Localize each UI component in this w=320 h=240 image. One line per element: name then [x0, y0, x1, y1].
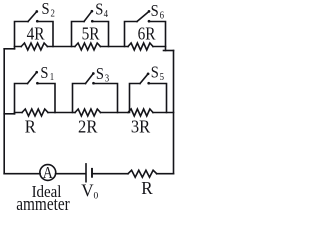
svg-text:4: 4: [104, 8, 108, 20]
svg-text:S: S: [95, 1, 103, 19]
svg-text:S: S: [151, 2, 159, 20]
wire middle-left connector: [4, 113, 14, 115]
svg-text:3R: 3R: [131, 117, 151, 137]
svg-text:4R: 4R: [27, 23, 46, 43]
resistor R (bottom branch): [128, 170, 157, 177]
svg-text:5R: 5R: [82, 23, 101, 43]
switch S6 parallel branch box: [125, 22, 138, 47]
resistor 4R: [21, 43, 47, 50]
svg-text:V: V: [81, 180, 94, 201]
switch S4 lever and contact dots: [84, 11, 92, 21]
switch S2 lever and contact dots: [28, 12, 37, 22]
resistor 3R: [128, 109, 153, 116]
resistor R (middle branch): [22, 109, 48, 116]
svg-text:3: 3: [105, 73, 109, 85]
switch S1 parallel branch box: [15, 84, 28, 114]
wire middle branch: [15, 112, 174, 114]
switch S5 lever and contact dots: [140, 74, 148, 84]
resistor 6R: [128, 43, 153, 50]
switch S2 parallel branch box: [15, 22, 29, 49]
svg-text:2: 2: [51, 8, 55, 20]
svg-text:R: R: [141, 178, 153, 199]
wire top-right corner connector: [164, 50, 174, 52]
switch S1 lever and contact dots: [28, 72, 37, 83]
svg-text:6R: 6R: [138, 23, 157, 43]
svg-text:S: S: [151, 64, 159, 82]
battery V0 short plate: [91, 168, 93, 178]
wire bottom branch: [4, 173, 173, 175]
svg-text:A: A: [43, 164, 54, 183]
wire top-left corner connector: [4, 48, 14, 50]
wire right outer vertical: [173, 51, 175, 174]
svg-text:R: R: [25, 117, 36, 137]
switch S6 lever and contact dots: [137, 11, 149, 21]
switch S4 parallel branch box: [72, 22, 85, 47]
svg-text:S: S: [40, 64, 48, 82]
svg-text:S: S: [96, 65, 104, 83]
svg-text:1: 1: [50, 71, 54, 83]
svg-text:2R: 2R: [78, 117, 98, 137]
svg-text:6: 6: [160, 10, 164, 22]
switch S5 parallel branch box: [130, 84, 141, 113]
svg-text:S: S: [42, 0, 50, 18]
svg-text:5: 5: [160, 71, 164, 83]
wire top branch: [15, 46, 166, 48]
svg-text:0: 0: [94, 191, 99, 201]
switch S3 lever and contact dots: [86, 74, 94, 84]
battery V0 long plate: [85, 164, 87, 182]
switch S3 parallel branch box: [73, 84, 86, 113]
ammeter A (ideal ammeter) circle: [40, 165, 56, 181]
resistor 5R: [75, 43, 101, 50]
resistor 2R: [75, 109, 101, 116]
svg-text:ammeter: ammeter: [16, 193, 70, 213]
wire left outer vertical: [3, 49, 5, 174]
